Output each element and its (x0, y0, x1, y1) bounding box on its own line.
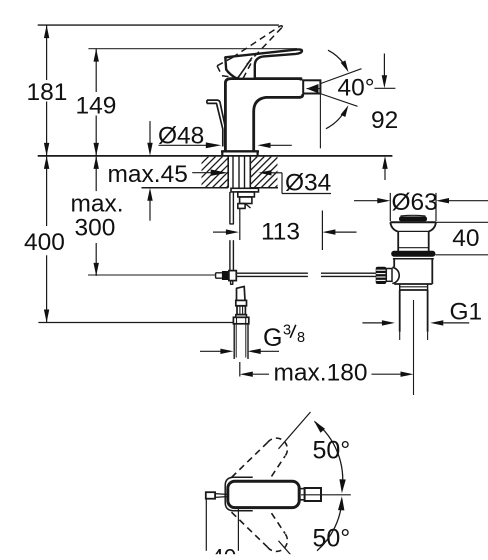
svg-text:Ø63: Ø63 (392, 189, 438, 216)
svg-text:92: 92 (371, 107, 398, 134)
svg-text:181: 181 (27, 79, 68, 106)
svg-text:300: 300 (75, 215, 116, 242)
svg-text:max.45: max.45 (108, 161, 188, 188)
svg-text:149: 149 (76, 93, 117, 120)
svg-text:max.: max. (70, 191, 123, 218)
svg-text:8: 8 (297, 330, 305, 346)
svg-text:G: G (263, 324, 282, 352)
svg-text:Ø34: Ø34 (285, 170, 331, 197)
svg-text:3: 3 (283, 323, 291, 339)
svg-text:G1: G1 (450, 299, 483, 326)
svg-text:40°: 40° (338, 74, 375, 101)
svg-text:50°: 50° (313, 437, 351, 465)
svg-text:40: 40 (452, 225, 479, 252)
svg-text:max.180: max.180 (274, 360, 368, 387)
svg-text:50°: 50° (313, 525, 351, 553)
svg-text:400: 400 (24, 229, 65, 256)
svg-text:113: 113 (261, 218, 300, 245)
